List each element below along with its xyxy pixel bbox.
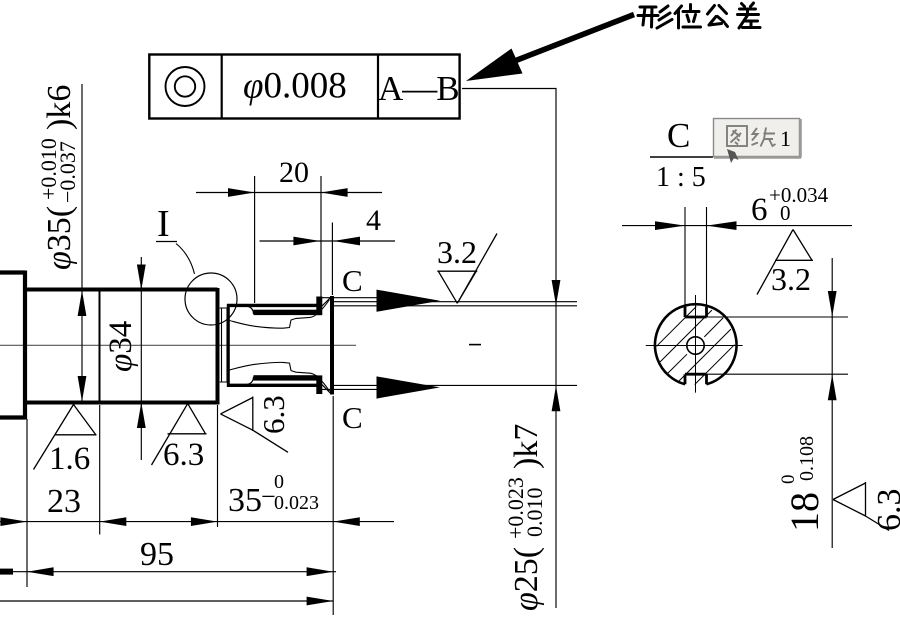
roughness 3.2 (on phi25 extension line) [437, 234, 497, 304]
cursor glyph [727, 149, 739, 163]
arrowhead 4 left [293, 237, 320, 246]
dimension phi35 vertical [81, 84, 83, 401]
arrowhead 23 left [0, 517, 27, 526]
hatching [657, 307, 735, 385]
roughness 6.3 rotated (shoulder face) [221, 397, 289, 453]
frame box [149, 55, 459, 119]
section circle outline [655, 304, 737, 384]
detail label I underline [156, 241, 177, 243]
keyway slot bottom: top line thick [254, 375, 318, 380]
arrowhead overall right [307, 597, 334, 606]
glyph zhi (纸) [752, 128, 776, 147]
dimension line 20 [196, 192, 382, 194]
svg-text:6.3: 6.3 [256, 395, 291, 434]
svg-text:0: 0 [274, 471, 284, 493]
keyway slot top right end wall (cut mark C) [316, 297, 322, 316]
arrowhead 95 left [27, 567, 54, 576]
dimension phi34 vertical [140, 257, 142, 460]
end chamfer top [322, 298, 331, 307]
label phi34 rotated [103, 321, 139, 372]
arrowhead 18 bottom (outside pointing up) [828, 375, 837, 401]
dimension line overall bottom [0, 600, 333, 602]
arrowhead phi34 bottom (outside pointing up) [137, 403, 146, 429]
svg-text:20: 20 [279, 156, 309, 189]
svg-text:23: 23 [47, 483, 81, 520]
big leader arrow to frame [466, 49, 523, 82]
keyway section top edge [227, 304, 322, 307]
arrowhead 95 right [307, 567, 334, 576]
svg-text:1: 1 [780, 126, 791, 151]
extension line left shoulder [26, 419, 28, 587]
slot inner visible edge bottom (wavy) [230, 362, 330, 391]
extension line shaft end for dim 4 [331, 223, 333, 296]
section center hole [687, 337, 704, 354]
label 18 0/-0.108 rotated [778, 436, 827, 532]
svg-text:4: 4 [366, 204, 381, 237]
svg-text:35: 35 [228, 482, 262, 519]
svg-text:3.2: 3.2 [771, 261, 811, 297]
glyph xing (形) [638, 6, 672, 28]
svg-text:0.023: 0.023 [274, 492, 319, 514]
glyph wei (位) [675, 5, 701, 29]
cut arrow line top [319, 297, 377, 299]
roughness 3.2 section (inverted under dim line) [757, 230, 813, 295]
extension line key slot right [320, 176, 322, 297]
dimension line 95 [0, 571, 336, 573]
dim 18 extension lines [707, 316, 849, 318]
svg-text:φ25(: φ25( [508, 547, 545, 611]
shaft segment 2+3 bottom edge [25, 401, 218, 405]
cut arrow line bottom [319, 388, 377, 390]
section label underline [650, 156, 713, 158]
svg-text:φ0.008: φ0.008 [243, 66, 347, 107]
arrowhead phi34 top (outside pointing down) [137, 265, 146, 291]
detail circle I [185, 273, 237, 325]
arrowhead 6 right [707, 221, 737, 230]
arrowhead 18 top (outside pointing down) [828, 291, 837, 317]
svg-text:−0.037: −0.037 [55, 141, 80, 203]
extension line step phi35/phi34 [99, 405, 101, 535]
arrowhead 4 right [333, 237, 360, 246]
stub arrow at left edge 95 line [0, 569, 13, 575]
shaft end face [330, 296, 334, 395]
arrowhead phi25 bottom (outside pointing up) [552, 386, 561, 411]
arrowhead phi25 top (outside pointing down) [552, 280, 561, 305]
svg-text:I: I [157, 203, 170, 245]
arrowhead 35 left [191, 517, 218, 526]
svg-text:6.3: 6.3 [163, 437, 204, 473]
keyway slot top left round end [248, 306, 254, 314]
concentricity symbol inner circle [175, 76, 195, 96]
roughness 1.6 (under segment2, inverted) [34, 405, 97, 470]
keyway slot top: bottom line thick [254, 310, 318, 315]
glyph gong (公) [708, 6, 728, 27]
dimension line 23 / 35 [0, 521, 394, 523]
svg-text:C: C [667, 116, 690, 155]
section centerline vertical [695, 295, 697, 393]
keyway body left edge [227, 304, 230, 387]
phi25 extension lines [334, 302, 577, 386]
arrowhead phi35 bottom (inside pointing down) [78, 376, 87, 402]
section centerline horizontal [646, 345, 743, 347]
arrowhead 6 left [655, 221, 685, 230]
cut big arrow top [377, 290, 441, 312]
frame divider 2 [377, 55, 379, 119]
svg-text:0: 0 [780, 201, 791, 225]
section slot top [685, 307, 707, 317]
arrowhead 20 left [228, 188, 255, 197]
frame divider 1 [221, 55, 223, 119]
svg-text:)k6: )k6 [41, 85, 78, 130]
glyph cha (差) [738, 3, 761, 28]
svg-text:φ34: φ34 [103, 321, 139, 372]
keyway slot bottom left round end [248, 377, 254, 385]
slot inner visible edge top (wavy) [230, 300, 330, 329]
dimension line 4 [260, 240, 396, 242]
dimension line 6 [622, 225, 852, 227]
roughness 6.3 (under segment3, inverted) [152, 404, 207, 465]
svg-text:3.2: 3.2 [437, 234, 477, 270]
svg-text:18: 18 [782, 492, 827, 532]
extension line shaft end bottom [332, 396, 334, 615]
shoulder face right edge of phi34 [216, 288, 220, 405]
svg-text:C: C [342, 263, 363, 298]
keyway section bottom edge [227, 384, 322, 387]
centerline main axis [0, 344, 356, 346]
svg-text:φ35(: φ35( [41, 206, 78, 270]
extension line key slot left [254, 176, 256, 303]
arrowhead 35 right [333, 517, 360, 526]
concentricity symbol outer circle [166, 67, 205, 106]
arrowhead 20 right [321, 188, 348, 197]
svg-text:+0.034: +0.034 [769, 183, 829, 207]
label phi25(+0.023/0.010)k7 rotated [503, 424, 547, 611]
relief groove [220, 308, 227, 382]
step divider between phi35 and phi34 [99, 288, 101, 404]
glyph tu (图) [727, 126, 747, 146]
svg-text:0.108: 0.108 [796, 436, 818, 481]
phi25 dimension line vertical + leader from frame [462, 89, 556, 609]
arrowhead phi35 top (inside pointing up) [78, 291, 87, 317]
svg-text:A—B: A—B [378, 69, 459, 108]
svg-text:C: C [342, 400, 363, 435]
svg-text:)k7: )k7 [508, 424, 545, 469]
svg-text:0.010: 0.010 [522, 488, 547, 538]
keyway slot bottom right end wall (cut mark C) [316, 375, 322, 394]
shaft segment 1 (left collar) [0, 271, 25, 420]
dim 6 extension lines [684, 207, 686, 307]
label phi35(+0.010/-0.037)k6 rotated [36, 85, 80, 270]
end chamfer bottom [322, 384, 331, 393]
roughness 6.3 rotated section (on dim 18 line) [833, 482, 889, 531]
svg-text:95: 95 [140, 536, 174, 573]
svg-text:1.6: 1.6 [49, 441, 90, 477]
section slot bottom [685, 374, 707, 384]
svg-text:1 : 5: 1 : 5 [656, 162, 706, 193]
dimension line 18 vertical [831, 258, 833, 548]
extension line shoulder phi34 right [217, 405, 219, 527]
arrowhead 23 right [100, 517, 127, 526]
detail leader curve [176, 244, 195, 275]
svg-text:6: 6 [751, 192, 768, 228]
shaft segment 2+3 top edge [25, 288, 218, 292]
cut big arrow bottom [377, 376, 441, 398]
svg-text:6.3: 6.3 [871, 489, 900, 532]
